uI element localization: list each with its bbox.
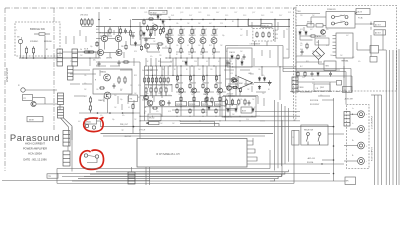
svg-text:R86: R86	[96, 29, 99, 31]
capacitor C501	[268, 80, 271, 85]
junction y116	[203, 116, 204, 117]
rail y110	[172, 109, 236, 111]
junction rail2	[180, 26, 181, 27]
wire	[70, 73, 96, 75]
resistor Rc7	[148, 18, 154, 20]
svg-text:L CH OUTPUT: L CH OUTPUT	[372, 115, 374, 129]
vertical feed wire	[225, 46, 227, 87]
resistor R55	[99, 87, 105, 89]
long bottom wire 2	[2, 180, 150, 182]
wire drop output cell	[176, 66, 178, 82]
transistor Q421	[104, 74, 111, 81]
wire stub v40	[239, 90, 241, 96]
svg-text:Q803: Q803	[320, 87, 324, 89]
junction	[21, 38, 22, 39]
transistor Q406	[144, 43, 149, 48]
svg-text:TH1: TH1	[130, 99, 133, 101]
wire stub h20	[224, 69, 234, 71]
wire stub v42	[251, 86, 253, 92]
wire relay to ladder	[33, 97, 46, 99]
input ground wire	[19, 57, 99, 59]
wire outlet link	[370, 27, 372, 30]
wire x133 down	[132, 110, 134, 134]
junction on +B rail	[191, 19, 192, 20]
resistor Re216	[215, 108, 217, 114]
wire stub v37	[133, 100, 135, 108]
svg-text:L: L	[17, 30, 18, 32]
svg-text:TP9: TP9	[48, 176, 51, 178]
junction	[261, 66, 262, 67]
svg-text:2k2: 2k2	[262, 93, 265, 95]
wire net diagonal 2	[59, 105, 61, 111]
wire	[254, 41, 256, 46]
resistor R32	[129, 29, 131, 37]
wire bridge to reg	[318, 60, 320, 65]
resistor R63	[151, 77, 153, 84]
capacitor Ct1	[124, 28, 127, 33]
junction	[370, 23, 371, 24]
junction on +B rail	[180, 19, 181, 20]
wire	[169, 55, 171, 59]
svg-text:4k7: 4k7	[209, 23, 212, 25]
wire stub h19	[256, 91, 266, 93]
thermal sensor box	[129, 95, 138, 102]
wire	[130, 37, 132, 45]
svg-text:D7: D7	[88, 109, 90, 111]
right bus wire edge	[398, 49, 400, 185]
junction	[109, 112, 111, 114]
connector CN206	[63, 131, 70, 147]
fuse box F802	[370, 57, 377, 63]
wire collector	[191, 36, 193, 38]
wire drop output cell	[215, 66, 217, 82]
junction	[333, 173, 335, 175]
resistor R38	[169, 28, 171, 36]
svg-text:R455: R455	[225, 15, 228, 17]
svg-text:R5.2W R34/7: R5.2W R34/7	[310, 104, 319, 106]
svg-text:1k2: 1k2	[168, 95, 171, 97]
svg-text:33p: 33p	[120, 99, 123, 101]
svg-text:R27: R27	[84, 96, 87, 98]
wire stub v17	[225, 60, 227, 66]
resistor R11	[80, 18, 82, 26]
junction	[44, 57, 46, 59]
wire stub v0	[107, 30, 109, 36]
svg-text:STEREO: STEREO	[30, 41, 39, 43]
wire ac in left	[296, 13, 320, 15]
wire input net diagonal	[64, 118, 73, 140]
svg-text:POWER SW: POWER SW	[327, 9, 336, 11]
resistor R101	[25, 46, 27, 55]
op-amp U501	[238, 77, 253, 90]
resistor Rf177	[176, 83, 178, 89]
svg-text:2SC3858: 2SC3858	[215, 104, 221, 106]
junction on +B rail	[160, 19, 161, 20]
wire to terminal L+	[350, 113, 358, 115]
wire stub h15	[204, 91, 214, 93]
wire opamp in+	[226, 86, 237, 88]
svg-text:D407: D407	[216, 12, 219, 14]
wire to right 2	[255, 115, 300, 117]
svg-text:33p: 33p	[90, 46, 93, 48]
wire stub v48	[65, 36, 67, 44]
svg-text:4k7: 4k7	[170, 61, 173, 63]
wire	[144, 66, 146, 75]
junction y75	[161, 75, 162, 76]
wire stub h3	[162, 47, 170, 49]
bus left stagger vertical	[56, 169, 58, 184]
psu wire to bus	[379, 49, 387, 51]
resistor R40	[191, 28, 193, 36]
svg-text:2k2: 2k2	[80, 55, 83, 57]
junction on +B rail	[237, 19, 238, 20]
svg-text:33p: 33p	[146, 123, 149, 125]
diode D401	[157, 14, 160, 19]
relay RY201 box	[23, 95, 33, 101]
mid rail 2	[152, 66, 154, 98]
svg-text:220: 220	[130, 85, 133, 87]
junction on input rail	[22, 57, 23, 58]
rail y45.6	[239, 45, 283, 47]
diode D402	[134, 42, 137, 47]
speaker terminal L-	[358, 126, 365, 133]
psu wire 2	[296, 61, 322, 63]
wire step up	[252, 138, 254, 141]
rail y96 right	[223, 95, 258, 97]
svg-text:4k7: 4k7	[346, 35, 349, 37]
junction	[180, 75, 181, 76]
junction	[26, 57, 28, 59]
diode Dc1	[143, 32, 146, 37]
wire stub v3	[133, 58, 135, 66]
power transistor Q443	[204, 88, 209, 93]
svg-text:33p: 33p	[162, 69, 165, 71]
U801 pin 7	[333, 54, 337, 56]
wire	[279, 67, 281, 100]
resistor Rx1	[132, 103, 134, 109]
junction	[232, 66, 233, 67]
wire to speaker terminal	[247, 163, 344, 165]
resistor Rt120	[119, 28, 121, 35]
svg-text:R CH OUTPUT: R CH OUTPUT	[372, 147, 374, 161]
svg-text:2k2: 2k2	[150, 85, 153, 87]
junction on +B rail	[288, 19, 289, 20]
svg-text:C29: C29	[215, 79, 218, 81]
svg-text:0.1: 0.1	[236, 78, 238, 80]
resistor R12	[84, 18, 86, 26]
relay contact 2	[318, 133, 321, 145]
junction t1	[120, 26, 121, 27]
block above title	[27, 117, 43, 122]
svg-text:NJM: NJM	[239, 83, 243, 85]
bottom wire to speaker gnd	[270, 180, 345, 182]
junction rail y66	[213, 65, 214, 66]
wire rail stub	[237, 20, 239, 27]
svg-text:R93: R93	[158, 61, 161, 63]
junction y116	[152, 116, 153, 117]
wire	[73, 69, 90, 71]
wire collector	[180, 36, 182, 38]
wire to terminal R+	[344, 145, 358, 147]
right bus wire 7	[381, 95, 383, 185]
wire	[225, 96, 227, 121]
svg-text:1k2: 1k2	[134, 93, 137, 95]
wire right edge drop	[282, 46, 284, 72]
junction	[352, 114, 353, 115]
resistor R44	[202, 47, 204, 54]
wire	[90, 110, 92, 113]
svg-text:47u: 47u	[100, 115, 103, 117]
junction y75	[193, 75, 194, 76]
psu wire 5	[299, 35, 301, 40]
junction rail y66	[202, 65, 203, 66]
power transistor module Q454	[215, 102, 226, 106]
svg-text:C427: C427	[234, 12, 237, 14]
svg-text:RELAY SW: RELAY SW	[304, 129, 313, 132]
U801 pin 6	[333, 51, 337, 53]
output stage rail 2	[206, 66, 208, 116]
wire	[202, 55, 204, 59]
wire between test points	[88, 156, 96, 157]
svg-text:R13: R13	[275, 34, 278, 36]
bus wire top link	[371, 94, 382, 96]
U801 pin 3	[333, 41, 337, 43]
wire stub h6	[200, 51, 208, 53]
svg-text:C59: C59	[138, 85, 141, 87]
wire resistor bank bottom	[82, 26, 93, 28]
svg-text:2SC3858: 2SC3858	[202, 104, 208, 106]
junction rail2	[237, 26, 238, 27]
resistor Rc4	[166, 33, 168, 39]
svg-text:B1: B1	[232, 21, 234, 23]
wire	[161, 106, 163, 116]
junction y75	[180, 75, 181, 76]
right bus wire 3	[392, 50, 394, 185]
AC outlet 2	[374, 30, 386, 35]
resistor Ra1	[237, 54, 239, 60]
svg-text:BRIDGE SW: BRIDGE SW	[30, 27, 45, 31]
transistor Q412	[178, 38, 184, 44]
power transistor module Q452	[189, 102, 200, 106]
wire stub v14	[153, 96, 155, 102]
psu wire 8	[357, 49, 370, 51]
wire	[180, 55, 182, 59]
svg-text:2k2: 2k2	[340, 55, 343, 57]
bus wire vertical 1	[277, 102, 279, 168]
transistor Q422	[104, 92, 111, 99]
wire	[231, 87, 237, 89]
input jack J102 R	[21, 88, 25, 92]
junction t2	[130, 26, 131, 27]
wire emitter	[213, 44, 215, 49]
resistor R61	[144, 77, 146, 84]
capacitor C451 box	[146, 122, 159, 125]
wire rail stub	[248, 20, 250, 27]
trimmer VR401 box	[149, 10, 167, 14]
resistor R102	[32, 46, 34, 55]
resistor Rc6	[140, 45, 142, 51]
wire stub h14	[190, 91, 200, 93]
wire	[191, 55, 193, 59]
svg-text:R2: R2	[160, 15, 162, 17]
junction y75	[219, 75, 220, 76]
bias select dashed box	[253, 28, 273, 41]
wire stub v13	[147, 96, 149, 102]
wire bridge resistor to rail 2	[33, 53, 35, 58]
wire Q201 to ladder	[36, 103, 57, 105]
channel divider dashed	[294, 8, 296, 120]
AC inlet box	[356, 9, 370, 15]
svg-text:1k2: 1k2	[172, 123, 175, 125]
junction on +B rail	[202, 19, 203, 20]
wire stub h21	[240, 69, 250, 71]
svg-text:47u: 47u	[152, 23, 155, 25]
svg-text:4k7: 4k7	[240, 35, 243, 37]
wire	[370, 22, 372, 25]
wire Q401 emitter	[154, 30, 156, 36]
wire	[213, 55, 215, 59]
junction	[333, 159, 335, 161]
junction t13	[99, 57, 100, 58]
wire switch left	[311, 16, 326, 18]
wire stub h29	[74, 95, 84, 97]
resistor R82	[189, 75, 191, 81]
resistor R42	[213, 28, 215, 36]
wire stub h11	[146, 69, 158, 71]
wire stub h12	[160, 61, 172, 63]
wire stub v6	[145, 58, 147, 66]
junction	[333, 126, 335, 128]
speaker terminal L+	[358, 111, 365, 118]
wire stub v25	[204, 30, 206, 34]
resistor R54	[89, 104, 91, 112]
svg-text:220: 220	[70, 61, 73, 63]
power transistor Q441	[178, 88, 183, 93]
psu wire 9	[343, 66, 345, 78]
capacitor Cm1	[98, 61, 101, 66]
svg-text:B1: B1	[174, 69, 176, 71]
diode D502	[263, 77, 266, 82]
resistor Rc5	[157, 43, 164, 45]
bottom bus line extra	[62, 175, 282, 177]
svg-text:2SC3858: 2SC3858	[176, 104, 182, 106]
capacitor C806	[329, 71, 332, 76]
junction	[161, 84, 162, 85]
wire	[155, 92, 157, 96]
output stage rail 0	[180, 66, 182, 116]
psu wire	[356, 42, 358, 50]
junction t4	[145, 65, 146, 66]
resistor R81	[176, 75, 178, 81]
schematic sheet dash-dot border left	[4, 8, 6, 171]
wire stub h25	[318, 95, 330, 97]
wire relay to terminal	[328, 133, 344, 135]
test point TP451	[85, 124, 88, 127]
junction on +B rail	[225, 19, 226, 20]
wire collector	[169, 36, 171, 38]
right column boundary wire	[229, 58, 231, 116]
comb wire x148	[148, 66, 150, 88]
wire stub v41	[245, 80, 247, 86]
svg-text:C431: C431	[270, 12, 273, 14]
resistor R88	[219, 96, 221, 102]
resistor R91	[225, 99, 227, 106]
svg-text:R33: R33	[134, 75, 137, 77]
svg-text:D2: D2	[204, 94, 206, 96]
svg-text:R459: R459	[243, 15, 246, 17]
svg-text:0.1: 0.1	[202, 79, 204, 81]
wire	[329, 82, 331, 92]
resistor R66	[163, 77, 165, 84]
resistor R62	[148, 77, 150, 84]
svg-text:4k7: 4k7	[224, 106, 227, 108]
junction	[191, 57, 192, 58]
svg-text:1k2: 1k2	[188, 54, 191, 56]
U801 pin 4	[333, 44, 337, 46]
resistor R801	[309, 35, 316, 37]
wire stub v34	[103, 96, 105, 102]
junction y121	[220, 120, 221, 121]
wire drop to terminal	[345, 72, 347, 105]
junction	[171, 84, 172, 85]
wire VR401 to rail	[157, 14, 159, 19]
output stage rail 3	[219, 66, 221, 116]
mid rail 3	[161, 66, 163, 98]
wire switch to inlet	[355, 12, 357, 14]
feedback wire 1	[283, 68, 351, 70]
wire	[140, 37, 142, 45]
svg-text:C421: C421	[162, 12, 165, 14]
junction	[202, 57, 203, 58]
wire stub v18	[241, 58, 243, 66]
capacitor Cg1	[132, 33, 135, 38]
junction rail y66	[180, 65, 181, 66]
wire stub v39	[231, 100, 233, 106]
wire bridge to rail	[44, 36, 46, 58]
resistor Re190	[189, 108, 191, 114]
rail y85	[145, 84, 172, 86]
wire	[78, 51, 97, 53]
svg-text:R451: R451	[207, 15, 210, 17]
svg-text:R+: R+	[352, 140, 354, 142]
capacitor C41	[145, 37, 148, 42]
wire stub h2	[150, 43, 158, 45]
svg-text:R5V2 R12B: R5V2 R12B	[310, 100, 318, 102]
pre-out wire	[101, 126, 334, 128]
junction y116	[177, 116, 178, 117]
relay contact 1	[307, 133, 310, 145]
wire stub v46	[79, 30, 81, 36]
wire stub v47	[73, 36, 75, 44]
wire stub v44	[263, 98, 265, 106]
svg-text:R95: R95	[182, 61, 185, 63]
junction	[213, 57, 214, 58]
power transistor Q444	[217, 88, 222, 93]
svg-text:AC IN: AC IN	[358, 11, 363, 14]
svg-text:0.1: 0.1	[230, 61, 232, 63]
connector CN203	[68, 66, 74, 80]
aux regulator box	[227, 48, 252, 67]
junction	[132, 112, 133, 113]
speaker terminal R-	[358, 158, 365, 165]
svg-text:33p: 33p	[146, 19, 149, 21]
wire stub v28	[251, 22, 253, 28]
wire stub v33	[99, 70, 101, 76]
svg-text:C23: C23	[220, 23, 223, 25]
wire corner step A	[180, 122, 215, 127]
svg-text:R 10: R 10	[204, 112, 207, 114]
bus wire corner 2	[84, 174, 282, 176]
